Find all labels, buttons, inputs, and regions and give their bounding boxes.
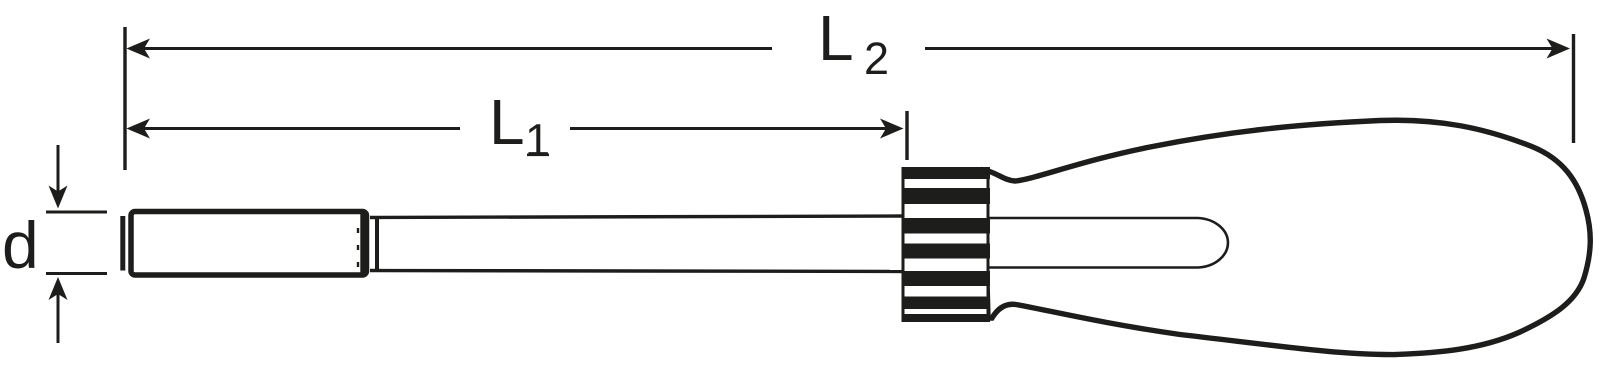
svg-text:1: 1 xyxy=(525,115,550,166)
svg-text:d: d xyxy=(2,208,39,282)
svg-text:L: L xyxy=(489,86,525,158)
svg-text:2: 2 xyxy=(864,33,889,84)
svg-text:L: L xyxy=(818,2,854,74)
